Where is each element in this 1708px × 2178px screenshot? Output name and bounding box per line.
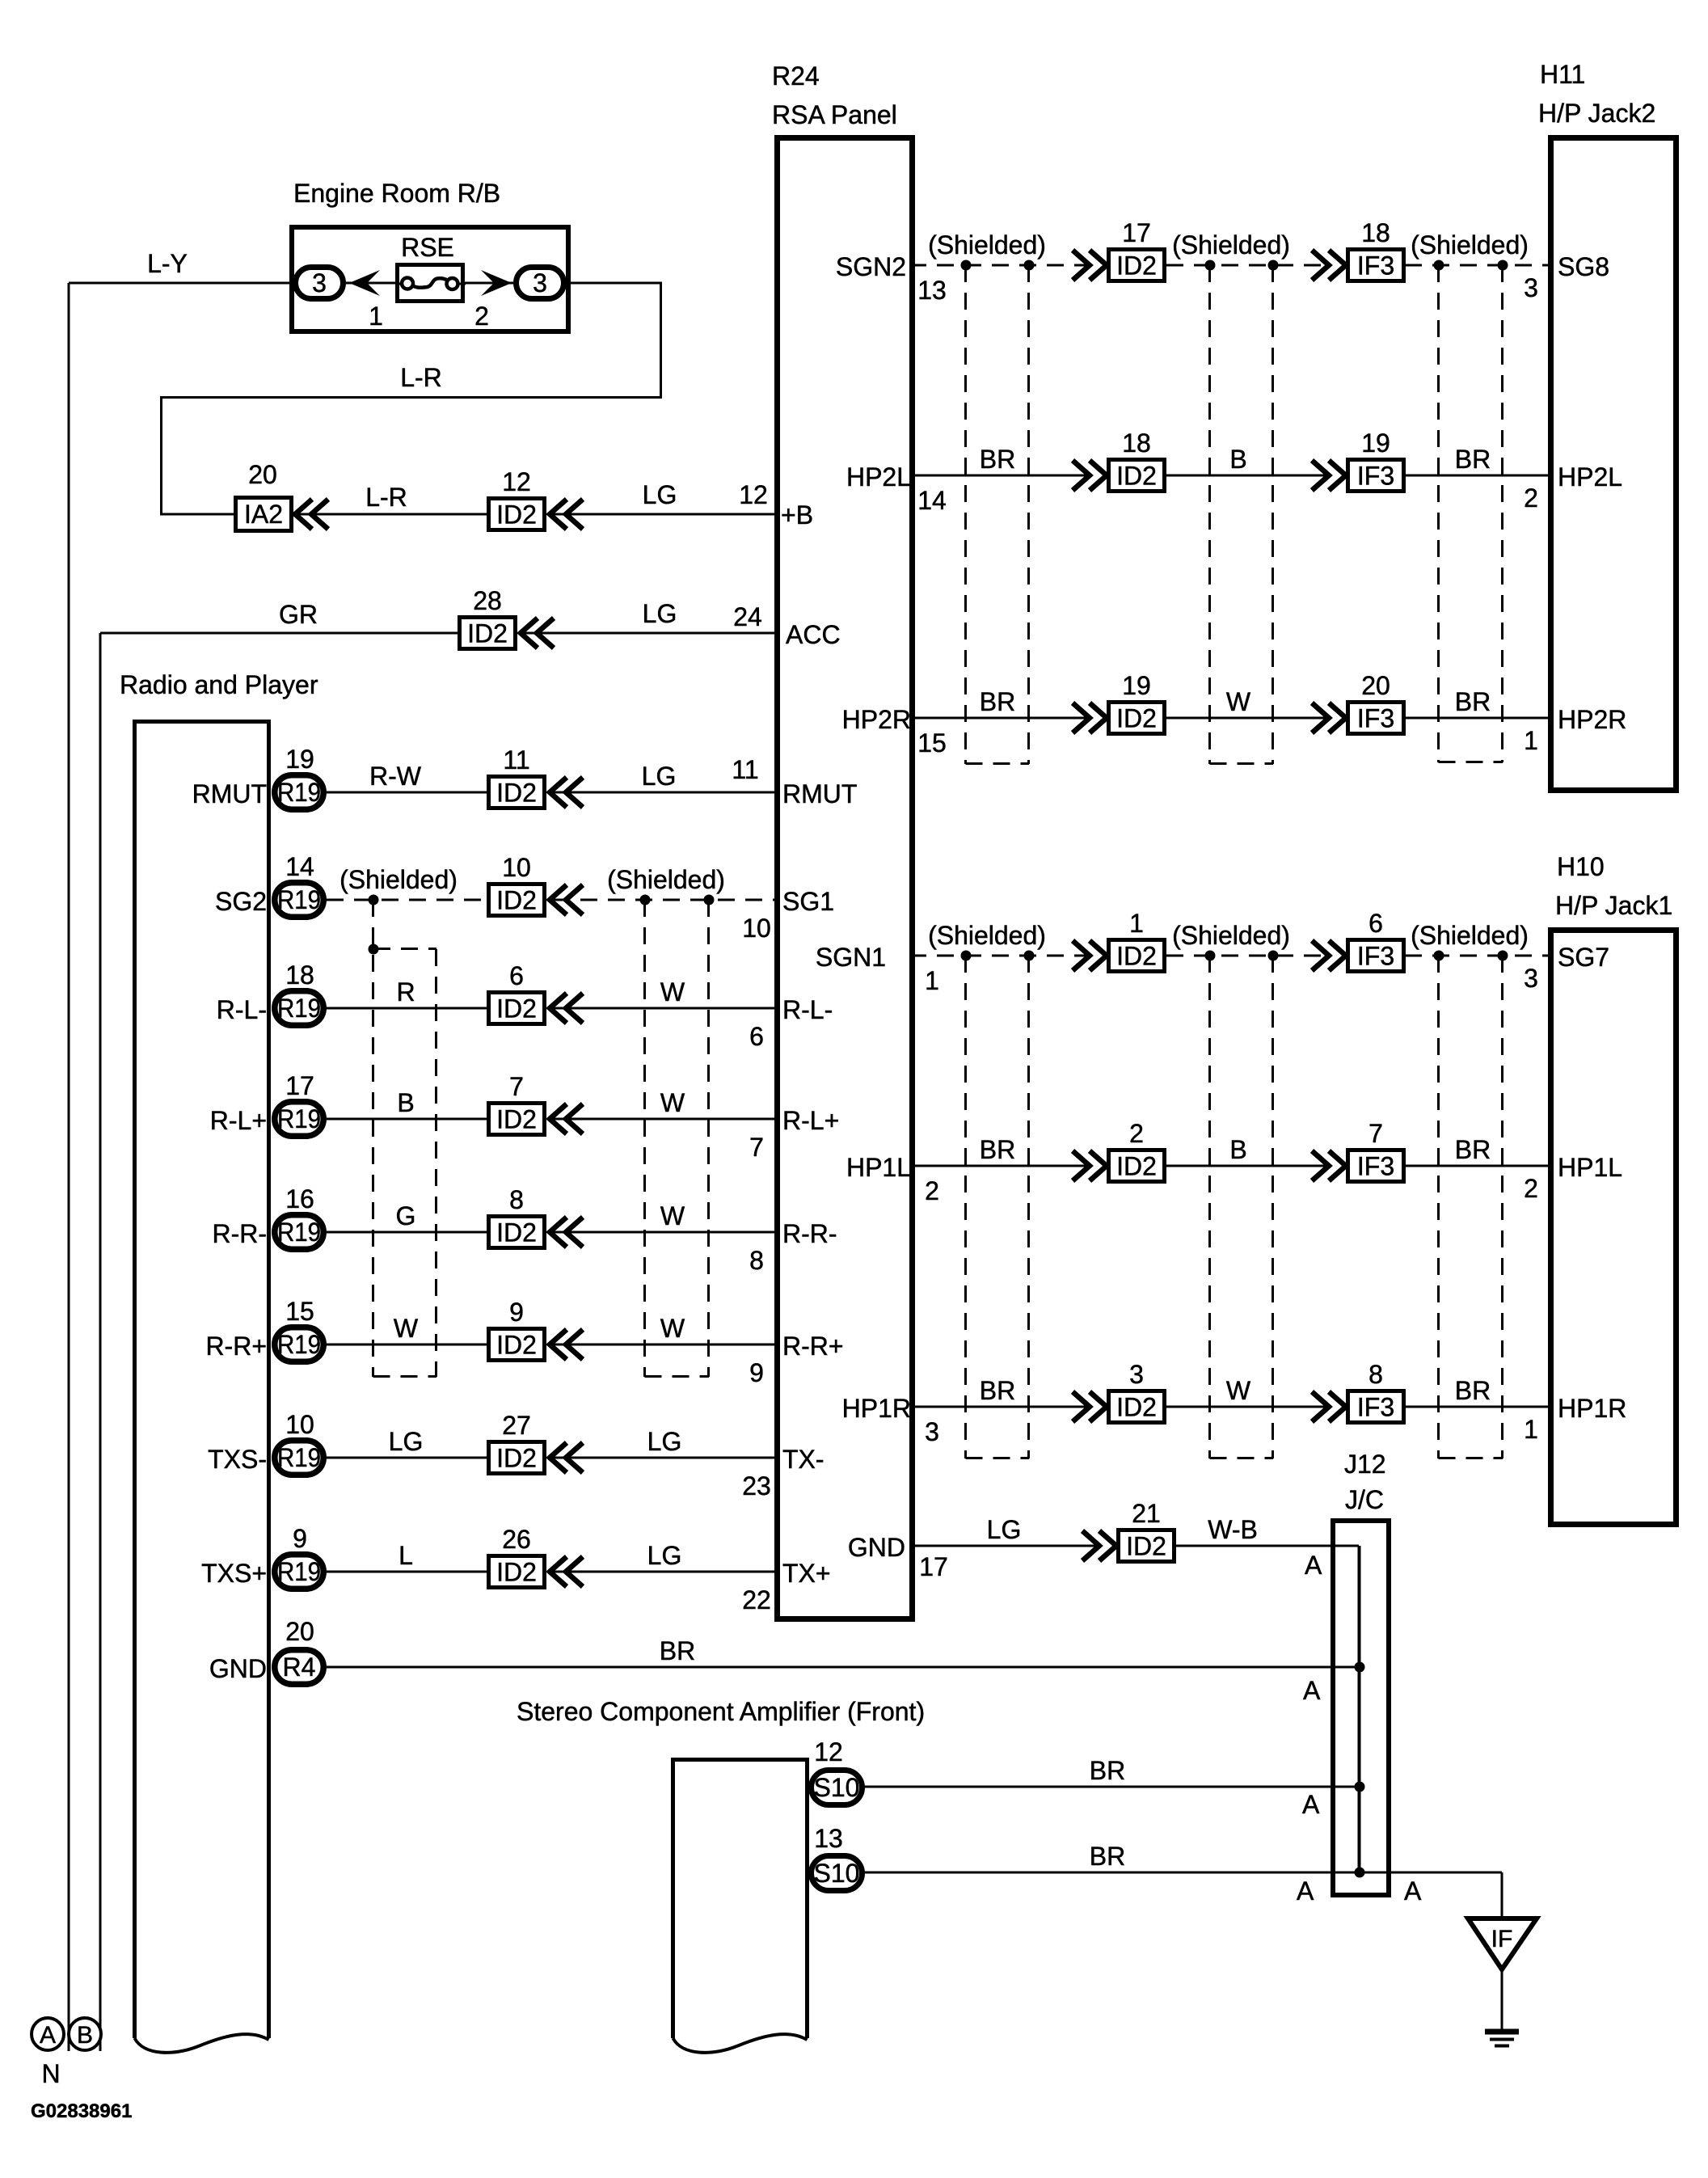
svg-text:A: A <box>1305 1551 1322 1580</box>
wire B (R-L+ row) <box>327 1118 487 1121</box>
svg-text:11: 11 <box>732 755 758 784</box>
junction connector J12 J/C <box>1333 1521 1389 1895</box>
connector R19 (TXS- row) <box>275 1441 324 1475</box>
arrows into ID2 (ACC) <box>521 618 538 648</box>
junction dot (S10-13 wire) <box>1355 1868 1365 1878</box>
svg-text:SGN1: SGN1 <box>816 943 886 972</box>
connector box ID2 pin 28 (ACC) <box>460 618 516 649</box>
connector box ID2 pin 1 (SGN1-SG7) <box>1109 940 1165 972</box>
wire BR (S10-12 to J/C) <box>863 1786 1359 1788</box>
svg-text:BR: BR <box>1090 1756 1125 1785</box>
arrows into IF3 (HP1R) <box>1312 1392 1329 1422</box>
wire IF to ground symbol <box>1501 1969 1503 2029</box>
wire BR (HP2L seg1) <box>909 475 1090 477</box>
svg-text:L-R: L-R <box>365 483 407 512</box>
connector box ID2 pin 6 (R-L- row) <box>489 993 545 1024</box>
connector box ID2 pin 21 (GND) <box>1119 1530 1175 1562</box>
svg-text:R-W: R-W <box>369 762 422 791</box>
shield dashed drop a <box>643 900 646 1377</box>
wire None (SGN2-SG8 seg1) <box>909 264 1090 267</box>
wire L (TXS+ row) <box>327 1571 487 1573</box>
svg-text:R19: R19 <box>277 1330 321 1359</box>
svg-text:19: 19 <box>1122 671 1151 700</box>
shield dashed drop (inner) <box>435 949 437 1377</box>
wire BR (GND to J/C) <box>327 1666 1359 1669</box>
svg-text:BR: BR <box>1455 445 1491 474</box>
svg-text:8: 8 <box>749 1246 764 1275</box>
connector R19 (SG2 row) <box>275 883 324 918</box>
svg-text:R19: R19 <box>277 778 321 807</box>
svg-text:HP1L: HP1L <box>1558 1153 1622 1182</box>
connector engine room pin 3 left <box>296 268 344 299</box>
connector box ID2 pin 11 (RMUT row) <box>489 777 545 808</box>
wire GR vertical to node B <box>99 633 102 2051</box>
svg-text:2: 2 <box>474 302 489 331</box>
svg-text:R19: R19 <box>277 1218 321 1247</box>
wire GR to ID2 <box>100 632 458 635</box>
wire LG (GND seg1) <box>909 1545 1099 1547</box>
svg-text:ID2: ID2 <box>1116 1152 1157 1181</box>
connector R19 (RMUT row) <box>275 775 324 810</box>
svg-text:RMUT: RMUT <box>192 779 267 808</box>
svg-text:21: 21 <box>1132 1499 1161 1528</box>
connector box ID2 pin 3 (HP1R) <box>1109 1391 1165 1423</box>
wire None (SGN2-SG8 seg3) <box>1405 264 1550 267</box>
svg-text:BR: BR <box>1455 1376 1491 1405</box>
shield dashed drops (jack2 section) <box>964 265 967 764</box>
arrows into ID2 (HP1L) <box>1073 1151 1090 1181</box>
svg-text:ID2: ID2 <box>496 779 537 808</box>
svg-text:SG8: SG8 <box>1558 252 1609 281</box>
connector box ID2 pin 2 (HP1L) <box>1109 1150 1165 1182</box>
connector box IF3 pin 8 (HP1R) <box>1348 1391 1404 1423</box>
arrows into IA2 <box>295 500 312 530</box>
svg-text:IF3: IF3 <box>1357 942 1394 971</box>
node B circle <box>69 2018 101 2050</box>
svg-text:9: 9 <box>749 1358 764 1387</box>
svg-text:3: 3 <box>1129 1360 1144 1389</box>
svg-text:(Shielded): (Shielded) <box>928 921 1046 950</box>
arrows into ID2 (R-L+ row) <box>550 1104 567 1134</box>
wire down to +B row <box>160 398 162 515</box>
svg-text:IF3: IF3 <box>1357 1393 1394 1422</box>
svg-text:IF3: IF3 <box>1357 704 1394 733</box>
svg-text:BR: BR <box>1090 1842 1125 1871</box>
svg-text:S10: S10 <box>814 1773 860 1802</box>
svg-text:HP2R: HP2R <box>1558 705 1626 734</box>
svg-text:R-R+: R-R+ <box>205 1332 267 1361</box>
svg-text:IA2: IA2 <box>244 500 283 529</box>
svg-text:LG: LG <box>642 762 677 791</box>
arrows into IF3 (HP1L) <box>1312 1151 1329 1181</box>
wire R (R-L- row) <box>327 1007 487 1010</box>
wire BR (HP1R seg3) <box>1405 1406 1550 1408</box>
svg-text:20: 20 <box>248 460 277 489</box>
svg-text:1: 1 <box>925 966 939 995</box>
svg-text:W: W <box>1226 1376 1251 1405</box>
Radio and Player block <box>135 722 269 2039</box>
svg-text:Stereo Component Amplifier (Fr: Stereo Component Amplifier (Front) <box>517 1697 925 1726</box>
svg-text:19: 19 <box>1361 428 1390 458</box>
solid arrow right (fuse pin 2) <box>481 270 512 296</box>
svg-text:R-R-: R-R- <box>782 1219 837 1248</box>
connector R19 (R-R- row) <box>275 1215 324 1250</box>
svg-text:J/C: J/C <box>1345 1485 1384 1514</box>
shield junction (drop corner) <box>369 944 379 955</box>
svg-text:(Shielded): (Shielded) <box>1411 230 1529 260</box>
wire B (HP2L seg2) <box>1166 475 1329 477</box>
svg-text:HP2L: HP2L <box>1558 462 1622 492</box>
svg-text:10: 10 <box>742 914 771 943</box>
svg-text:GR: GR <box>279 600 318 629</box>
svg-text:16: 16 <box>285 1184 314 1214</box>
svg-text:3: 3 <box>1524 964 1538 993</box>
svg-text:23: 23 <box>742 1471 771 1501</box>
svg-text:17: 17 <box>1122 218 1151 247</box>
svg-text:18: 18 <box>285 960 314 990</box>
connector block H11 H/P Jack2 <box>1551 138 1676 791</box>
arrows into IF3 (HP2L) <box>1312 461 1329 491</box>
svg-text:8: 8 <box>509 1185 524 1214</box>
connector box ID2 pin 10 (SG2 row) <box>489 884 545 916</box>
arrows into ID2 (HP2L) <box>1073 461 1090 491</box>
wire W (R-R- row) <box>553 1231 780 1234</box>
fuse RSE box <box>398 265 463 302</box>
arrows into IF3 (HP2R) <box>1312 703 1329 733</box>
wire None (SGN1-SG7 seg3) <box>1405 955 1550 957</box>
svg-text:3: 3 <box>312 268 327 298</box>
wire W (HP1R seg2) <box>1166 1406 1329 1408</box>
svg-text:R: R <box>396 977 415 1007</box>
svg-text:3: 3 <box>925 1417 939 1446</box>
shield junction (SG2 wire) <box>369 895 379 905</box>
svg-text:LG: LG <box>389 1427 424 1456</box>
svg-text:ID2: ID2 <box>496 994 537 1024</box>
wire B (HP1L seg2) <box>1166 1165 1329 1167</box>
connector S10 pin 13 <box>812 1856 862 1891</box>
svg-text:24: 24 <box>733 602 762 631</box>
junction dot (GND wire) <box>1355 1662 1365 1673</box>
connector R19 (R-L- row) <box>275 991 324 1026</box>
wire W (HP2R seg2) <box>1166 717 1329 720</box>
svg-text:11: 11 <box>503 745 529 775</box>
wire BR (HP2R seg3) <box>1405 717 1550 720</box>
svg-text:A: A <box>40 2022 56 2049</box>
svg-text:14: 14 <box>285 852 314 881</box>
connector box ID2 pin 27 (TXS- row) <box>489 1442 545 1474</box>
Stereo Component Amplifier torn bottom edge <box>673 2034 808 2053</box>
wire LG (TXS- row) <box>553 1457 780 1459</box>
wire W (R-L+ row) <box>553 1118 780 1121</box>
svg-text:SG2: SG2 <box>215 887 267 916</box>
svg-text:ID2: ID2 <box>1116 462 1157 491</box>
svg-text:R24: R24 <box>772 61 820 91</box>
svg-text:L-R: L-R <box>400 363 442 392</box>
connector box ID2 pin 7 (R-L+ row) <box>489 1104 545 1135</box>
shield junctions seg2 (SGN1-SG7) <box>1205 951 1216 961</box>
svg-text:R-L-: R-L- <box>782 995 833 1024</box>
svg-text:2: 2 <box>1524 483 1538 513</box>
svg-text:R-R+: R-R+ <box>782 1332 844 1361</box>
svg-text:HP1R: HP1R <box>842 1394 911 1423</box>
arrows into ID2 (SGN1-SG7) <box>1073 941 1090 971</box>
svg-text:12: 12 <box>502 467 531 496</box>
svg-text:BR: BR <box>980 1135 1015 1164</box>
svg-text:H/P Jack2: H/P Jack2 <box>1538 99 1655 128</box>
svg-text:(Shielded): (Shielded) <box>1172 230 1290 260</box>
svg-text:IF3: IF3 <box>1357 1152 1394 1181</box>
svg-text:H/P Jack1: H/P Jack1 <box>1555 891 1672 920</box>
wire W (R-R+ row) <box>553 1344 780 1346</box>
shield junctions seg1 (SGN1-SG7) <box>961 951 972 961</box>
svg-text:18: 18 <box>1122 428 1151 458</box>
svg-text:R-L+: R-L+ <box>782 1106 839 1135</box>
relay block Engine Room R/B <box>292 227 568 331</box>
connector box ID2 pin 26 (TXS+ row) <box>489 1556 545 1588</box>
svg-text:20: 20 <box>1361 671 1390 700</box>
wire None (SGN1-SG7 seg1) <box>909 955 1090 957</box>
svg-text:ID2: ID2 <box>1116 942 1157 971</box>
svg-text:LG: LG <box>643 480 677 509</box>
svg-text:LG: LG <box>647 1541 682 1570</box>
svg-text:TXS+: TXS+ <box>201 1559 267 1588</box>
arrows into ID2 (GND) <box>1082 1531 1099 1561</box>
svg-text:6: 6 <box>1369 909 1383 938</box>
svg-text:ID2: ID2 <box>496 1558 537 1587</box>
wire LG (TXS+ row) <box>553 1571 780 1573</box>
ECU block R24 RSA Panel <box>778 138 913 1619</box>
svg-text:12: 12 <box>739 480 768 509</box>
svg-text:R19: R19 <box>277 994 321 1023</box>
wire LG to RSA +B <box>553 513 780 516</box>
svg-text:BR: BR <box>1455 1135 1491 1164</box>
connector box IF3 pin 19 (HP2L) <box>1348 460 1404 492</box>
svg-text:13: 13 <box>814 1824 843 1853</box>
connector box IA2 <box>236 498 292 531</box>
svg-text:+B: +B <box>781 500 813 530</box>
svg-text:B: B <box>77 2022 93 2049</box>
shield junctions seg3 (SGN2-SG8) <box>1434 260 1444 271</box>
svg-text:R19: R19 <box>277 1443 321 1472</box>
svg-text:W-B: W-B <box>1208 1515 1258 1544</box>
Stereo Component Amplifier block <box>673 1760 808 2039</box>
svg-text:(Shielded): (Shielded) <box>607 865 725 894</box>
connector R19 (TXS+ row) <box>275 1555 324 1589</box>
svg-text:ID2: ID2 <box>1126 1532 1166 1561</box>
svg-text:ID2: ID2 <box>467 619 508 648</box>
arrows into IF3 (SGN2-SG8) <box>1312 251 1329 281</box>
shield dashed bottom (radio right pair) <box>645 1375 710 1378</box>
wire W (R-L- row) <box>553 1007 780 1010</box>
connector box ID2 pin 17 (SGN2-SG8) <box>1109 250 1165 281</box>
shield dashed drop (left) <box>372 900 374 1377</box>
svg-text:(Shielded): (Shielded) <box>339 865 458 894</box>
svg-text:18: 18 <box>1361 218 1390 247</box>
wire L-Y horizontal <box>69 282 293 285</box>
svg-text:8: 8 <box>1369 1360 1383 1389</box>
svg-text:7: 7 <box>1369 1119 1383 1148</box>
arrows into ID2 (SG2 row) <box>550 885 567 915</box>
svg-text:LG: LG <box>647 1427 682 1456</box>
svg-text:J12: J12 <box>1344 1450 1386 1479</box>
svg-text:(Shielded): (Shielded) <box>1172 921 1290 950</box>
svg-text:17: 17 <box>919 1552 948 1581</box>
wire (Shielded) (SG2 row) <box>327 899 487 901</box>
connector block H10 H/P Jack1 <box>1551 931 1676 1525</box>
wire BR (HP2R seg1) <box>909 717 1090 720</box>
shield dashed drops (jack1 section) <box>964 956 967 1458</box>
svg-text:17: 17 <box>285 1071 314 1100</box>
svg-text:LG: LG <box>987 1515 1022 1544</box>
connector box ID2 pin 12 (+B) <box>489 499 545 530</box>
shield dashed drop b <box>707 900 710 1377</box>
wire (Shielded) (SG2 row) <box>553 899 780 901</box>
svg-text:ID2: ID2 <box>496 1218 537 1247</box>
svg-text:6: 6 <box>509 961 524 990</box>
shield dashed bottoms (jack1 section) <box>966 1457 1030 1459</box>
svg-text:ID2: ID2 <box>1116 1393 1157 1422</box>
svg-text:W: W <box>660 1201 685 1230</box>
shield junctions seg1 (SGN2-SG8) <box>961 260 972 271</box>
arrows into ID2 (HP1R) <box>1073 1392 1090 1422</box>
svg-text:B: B <box>1229 445 1246 474</box>
arrows into ID2 (SGN2-SG8) <box>1073 251 1090 281</box>
connector box IF3 pin 6 (SGN1-SG7) <box>1348 940 1404 972</box>
svg-text:SG1: SG1 <box>782 887 834 916</box>
svg-text:ID2: ID2 <box>1116 251 1157 281</box>
svg-text:R19: R19 <box>277 885 321 914</box>
wire BR (HP1L seg1) <box>909 1165 1090 1167</box>
wire BR (S10-13 to ground) <box>863 1872 1502 1874</box>
svg-text:20: 20 <box>285 1617 314 1646</box>
svg-text:A: A <box>1303 1676 1321 1705</box>
shield dashed jog <box>373 948 436 950</box>
connector box ID2 pin 8 (R-R- row) <box>489 1217 545 1248</box>
arrows into ID2 (R-L- row) <box>550 994 567 1024</box>
svg-text:B: B <box>397 1088 414 1117</box>
svg-text:G: G <box>396 1201 416 1230</box>
svg-text:BR: BR <box>660 1636 695 1665</box>
svg-text:1: 1 <box>1524 1415 1538 1444</box>
svg-text:SG7: SG7 <box>1558 943 1609 972</box>
svg-text:6: 6 <box>749 1022 764 1051</box>
J/C internal bus <box>1358 1546 1361 1872</box>
svg-text:2: 2 <box>925 1176 939 1205</box>
shield junctions seg2 (SGN2-SG8) <box>1205 260 1216 271</box>
svg-text:1: 1 <box>1129 909 1144 938</box>
svg-text:1: 1 <box>1524 726 1538 755</box>
arrows into ID2 (R-R+ row) <box>550 1330 567 1360</box>
svg-text:H10: H10 <box>1557 852 1605 881</box>
wire BR (HP2L seg3) <box>1405 475 1550 477</box>
wire L-R to ID2 <box>298 513 487 516</box>
svg-text:ACC: ACC <box>786 620 841 649</box>
wire R-W (RMUT row) <box>327 791 487 794</box>
ground triangle IF <box>1468 1918 1537 1969</box>
svg-text:IF3: IF3 <box>1357 462 1394 491</box>
connector box ID2 pin 18 (HP2L) <box>1109 460 1165 492</box>
svg-text:HP2L: HP2L <box>846 462 911 492</box>
fuse element RSE <box>395 283 403 285</box>
svg-text:3: 3 <box>1524 273 1538 302</box>
svg-text:ID2: ID2 <box>496 886 537 915</box>
svg-text:BR: BR <box>980 1376 1015 1405</box>
svg-text:19: 19 <box>285 745 314 774</box>
solid arrow left (fuse pin 1) <box>349 270 380 296</box>
svg-text:ID2: ID2 <box>496 1105 537 1134</box>
svg-text:ID2: ID2 <box>1116 704 1157 733</box>
svg-text:2: 2 <box>1129 1119 1144 1148</box>
shield junctions seg3 (SGN1-SG7) <box>1434 951 1444 961</box>
svg-text:W: W <box>1226 687 1251 716</box>
svg-text:3: 3 <box>533 268 547 298</box>
svg-text:TX+: TX+ <box>782 1559 831 1588</box>
svg-text:B: B <box>1229 1135 1246 1164</box>
svg-text:15: 15 <box>917 728 947 758</box>
svg-text:Radio and Player: Radio and Player <box>120 670 318 699</box>
wire LG (RMUT row) <box>553 791 780 794</box>
svg-text:BR: BR <box>980 445 1015 474</box>
svg-text:A: A <box>1302 1790 1320 1819</box>
shield junction (SG1 wire a) <box>640 895 651 905</box>
svg-text:A: A <box>1297 1876 1314 1906</box>
svg-text:R-R-: R-R- <box>212 1219 267 1248</box>
svg-text:RSA Panel: RSA Panel <box>772 100 897 129</box>
svg-text:BR: BR <box>1455 687 1491 716</box>
node A circle <box>32 2018 64 2050</box>
svg-text:GND: GND <box>209 1654 267 1683</box>
svg-text:10: 10 <box>502 853 531 882</box>
connector box ID2 pin 9 (R-R+ row) <box>489 1329 545 1361</box>
svg-text:ID2: ID2 <box>496 1444 537 1473</box>
wire G (R-R- row) <box>327 1231 487 1234</box>
arrows into ID2 (+B) <box>550 500 567 530</box>
svg-text:GND: GND <box>848 1533 905 1562</box>
svg-text:15: 15 <box>285 1297 314 1326</box>
wire from engine room right side <box>567 282 662 285</box>
connector box IF3 pin 20 (HP2R) <box>1348 703 1404 734</box>
svg-text:(Shielded): (Shielded) <box>1411 921 1529 950</box>
svg-text:G02838961: G02838961 <box>31 2100 132 2122</box>
connector S10 pin 12 <box>812 1771 862 1805</box>
svg-text:7: 7 <box>749 1133 764 1162</box>
svg-text:R-L+: R-L+ <box>210 1106 267 1135</box>
connector box ID2 pin 19 (HP2R) <box>1109 703 1165 734</box>
connector box IF3 pin 18 (SGN2-SG8) <box>1348 250 1404 281</box>
svg-text:ID2: ID2 <box>496 500 537 530</box>
svg-text:2: 2 <box>1524 1174 1538 1203</box>
svg-text:W: W <box>660 977 685 1007</box>
svg-text:(Shielded): (Shielded) <box>928 230 1046 260</box>
svg-text:LG: LG <box>643 599 677 628</box>
svg-text:14: 14 <box>917 486 947 515</box>
connector box IF3 pin 7 (HP1L) <box>1348 1150 1404 1182</box>
shield dashed bottoms (jack2 section) <box>966 762 1030 765</box>
svg-text:RMUT: RMUT <box>782 779 857 808</box>
svg-text:HP2R: HP2R <box>842 705 911 734</box>
wire L-Y vertical to node A <box>68 283 70 2051</box>
connector R19 (R-R+ row) <box>275 1327 324 1362</box>
svg-text:Engine Room R/B: Engine Room R/B <box>293 179 500 208</box>
svg-text:W: W <box>394 1314 419 1343</box>
wire down to ground IF <box>1501 1872 1503 1918</box>
connector R19 (R-L+ row) <box>275 1102 324 1137</box>
svg-text:L-Y: L-Y <box>147 249 188 278</box>
Radio and Player torn bottom edge <box>135 2034 269 2053</box>
arrows into ID2 (TXS+ row) <box>550 1557 567 1587</box>
svg-text:N: N <box>41 2059 60 2088</box>
ground symbol <box>1485 2029 1519 2035</box>
